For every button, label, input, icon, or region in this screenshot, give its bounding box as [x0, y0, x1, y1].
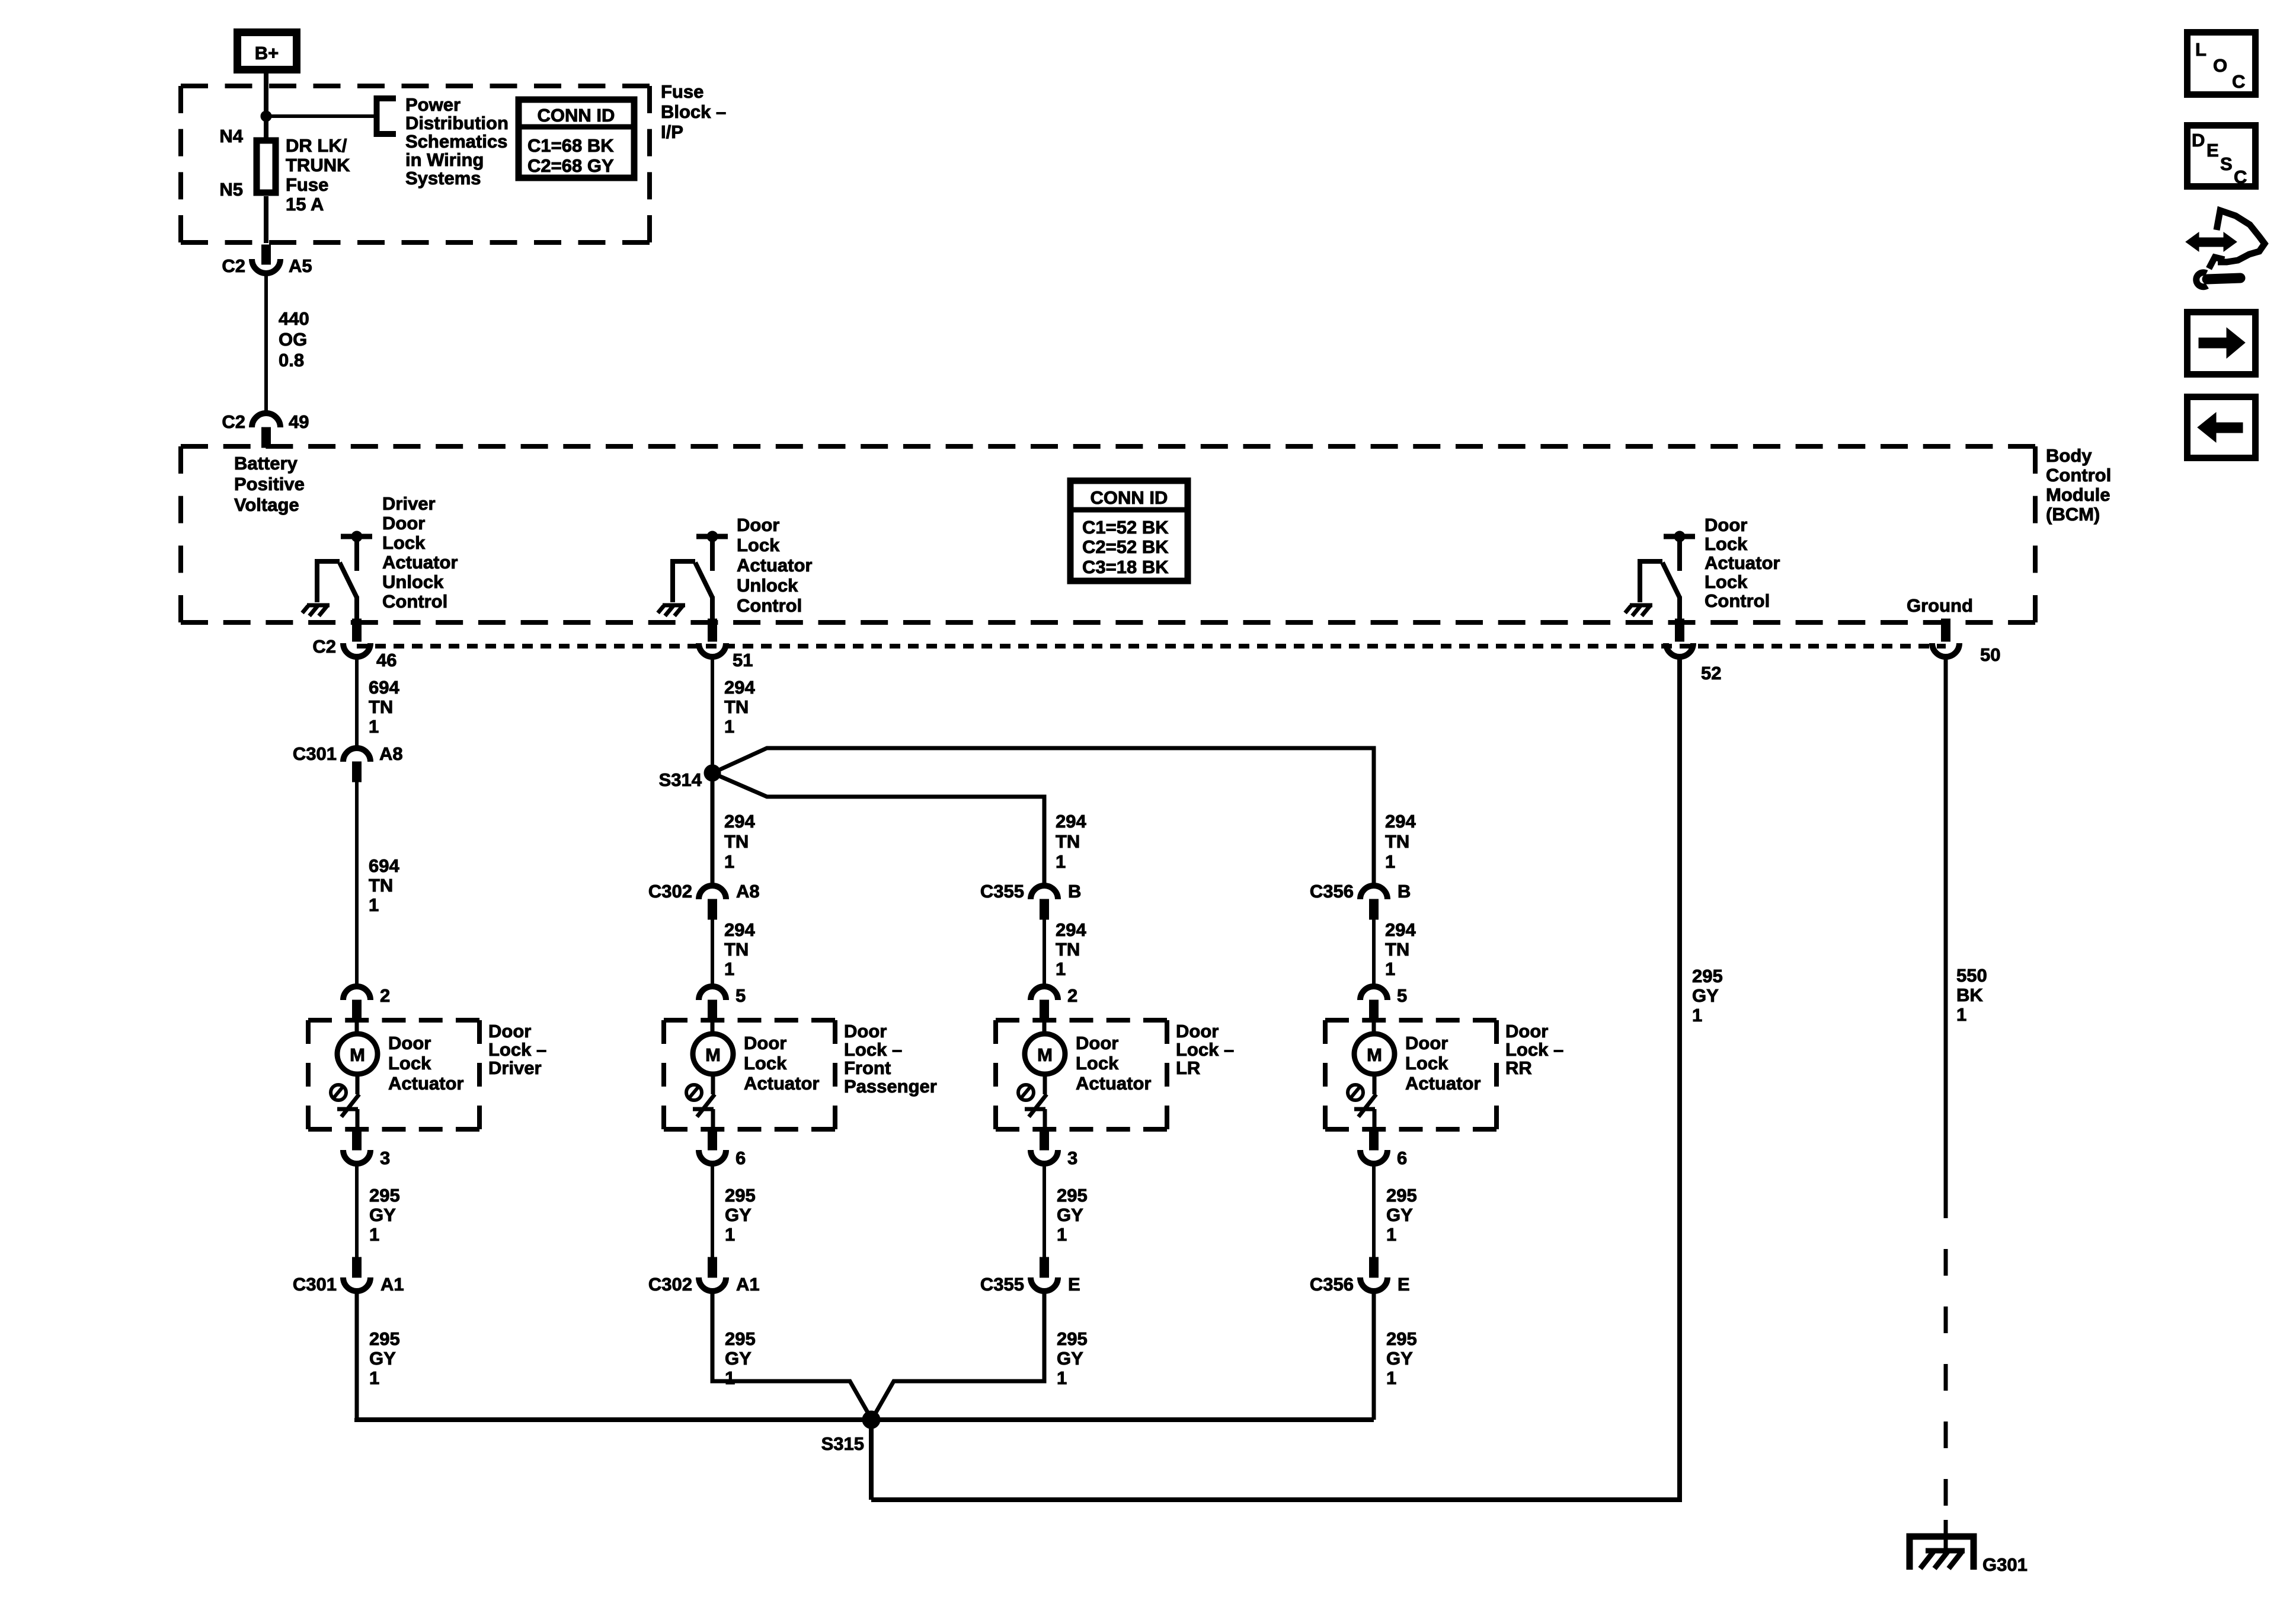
BCM pin 51 stub	[708, 619, 717, 641]
svg-text:295: 295	[725, 1328, 756, 1349]
connector C356 pin B	[1310, 881, 1411, 919]
svg-text:295: 295	[1386, 1328, 1417, 1349]
wire S314 to LR branch (lower)	[712, 773, 1044, 886]
CONN ID table (fuse block)	[519, 100, 634, 178]
svg-text:Actuator: Actuator	[382, 552, 458, 573]
connector C2 pin A5	[222, 245, 312, 276]
BCM unlock driver: wire blade to pin	[710, 596, 715, 621]
svg-text:O: O	[2213, 55, 2227, 76]
svg-text:C356: C356	[1310, 881, 1354, 902]
BCM pin 52 connector arc	[1666, 643, 1693, 657]
svg-text:TN: TN	[724, 697, 749, 717]
svg-text:Control: Control	[1705, 590, 1770, 611]
label: Door Lock - Front Passenger	[844, 1021, 937, 1097]
wire C355-E funnel to S315	[872, 1291, 1044, 1419]
connector C355 pin E	[980, 1257, 1080, 1295]
svg-text:B: B	[1068, 881, 1081, 902]
svg-text:3: 3	[1067, 1148, 1077, 1168]
svg-text:DR LK/: DR LK/	[286, 135, 347, 156]
label: Fuse Block - I/P	[661, 81, 726, 142]
svg-text:S: S	[2220, 154, 2233, 174]
wire 694 TN 1 (C301 to actuator pin 2)	[357, 782, 399, 986]
svg-text:1: 1	[724, 851, 734, 872]
svg-text:TN: TN	[724, 831, 749, 852]
actuator driver pin 2 connector	[343, 985, 390, 1020]
svg-text:Door: Door	[1176, 1021, 1219, 1042]
wire junction to power-distribution tap	[266, 114, 376, 118]
svg-text:Ground: Ground	[1907, 595, 1973, 616]
actuator front passenger pin 6 connector	[699, 1129, 746, 1168]
BCM pin 46 stub	[353, 619, 362, 641]
svg-text:440: 440	[279, 308, 309, 329]
svg-text:Actuator: Actuator	[1705, 552, 1780, 573]
svg-text:294: 294	[724, 677, 755, 698]
svg-text:C3=18 BK: C3=18 BK	[1082, 557, 1169, 577]
CONN ID table (BCM)	[1070, 481, 1188, 581]
svg-text:TN: TN	[1385, 831, 1409, 852]
svg-text:1: 1	[1956, 1004, 1966, 1025]
svg-text:Door: Door	[1076, 1033, 1118, 1053]
svg-text:Door: Door	[488, 1021, 531, 1042]
label: Driver Door Lock Actuator Unlock Control	[382, 493, 458, 612]
svg-text:294: 294	[724, 811, 755, 832]
svg-text:Door: Door	[1705, 515, 1747, 535]
one-way symbol (front passenger)	[686, 1085, 702, 1100]
connector C2 pin 49	[222, 411, 309, 448]
svg-text:B+: B+	[255, 43, 279, 63]
BCM lock driver: switch blade	[1662, 563, 1680, 598]
BCM pin 52 stub	[1675, 619, 1684, 641]
wire 294 TN 1 (C302 to FP actuator pin 5)	[712, 919, 755, 986]
wire 294 TN 1 (pin 51 to S314)	[712, 657, 755, 773]
svg-text:1: 1	[725, 1224, 735, 1245]
svg-text:52: 52	[1701, 663, 1721, 683]
svg-text:Fuse: Fuse	[661, 81, 703, 102]
svg-text:Power: Power	[405, 94, 461, 115]
svg-text:Front: Front	[844, 1058, 891, 1078]
actuator switch blade (front passenger)	[697, 1094, 715, 1117]
wire 294 TN 1 (C355 to LR actuator pin 2)	[1044, 919, 1086, 986]
svg-text:295: 295	[369, 1328, 400, 1349]
Body Control Module (BCM) dashed box	[181, 444, 2035, 449]
one-way symbol (driver)	[331, 1085, 346, 1100]
svg-text:15 A: 15 A	[286, 194, 324, 215]
connector C301 pin A8	[293, 743, 403, 782]
svg-text:LR: LR	[1176, 1058, 1200, 1078]
svg-text:D: D	[2192, 130, 2205, 151]
svg-text:Door: Door	[388, 1033, 431, 1053]
wire 295 GY 1 (below C302)	[725, 1328, 756, 1388]
fuse block dashed box	[181, 84, 650, 88]
svg-text:GY: GY	[1386, 1205, 1413, 1225]
svg-text:GY: GY	[725, 1205, 752, 1225]
svg-text:1: 1	[724, 959, 734, 979]
svg-text:Body: Body	[2046, 445, 2092, 466]
BCM unlock driver: wire to internal ground	[673, 561, 695, 602]
wire 294 TN 1 (C356 to RR actuator pin 5)	[1374, 919, 1416, 986]
label: Door Lock Actuator Unlock Control	[737, 515, 812, 616]
icon: DESC button	[2188, 126, 2256, 188]
BCM driver unlock driver: wire to internal ground	[317, 561, 340, 602]
svg-text:C1=68 BK: C1=68 BK	[527, 135, 614, 156]
svg-text:C301: C301	[293, 1274, 337, 1295]
svg-text:Lock: Lock	[1405, 1053, 1448, 1074]
svg-text:N5: N5	[219, 179, 243, 200]
BCM lock driver: wire blade to pin	[1677, 596, 1682, 621]
svg-text:295: 295	[1692, 966, 1723, 986]
svg-text:1: 1	[1056, 959, 1066, 979]
svg-text:in Wiring: in Wiring	[405, 149, 484, 170]
label 294 TN 1 (LR branch)	[1056, 811, 1086, 872]
svg-text:C2=52 BK: C2=52 BK	[1082, 536, 1169, 557]
svg-text:C: C	[2234, 167, 2247, 187]
BCM lock driver: wire to internal ground	[1640, 561, 1662, 602]
svg-text:Actuator: Actuator	[737, 555, 812, 576]
svg-text:M: M	[1037, 1044, 1053, 1065]
BCM driver unlock driver: internal contact bar	[341, 531, 372, 571]
svg-text:GY: GY	[1692, 985, 1719, 1006]
svg-text:1: 1	[1386, 1224, 1396, 1245]
connector C356 pin E	[1310, 1257, 1410, 1295]
svg-text:Door: Door	[737, 515, 779, 535]
svg-text:Fuse: Fuse	[286, 174, 328, 195]
svg-text:A1: A1	[380, 1274, 404, 1295]
svg-text:Door: Door	[1405, 1033, 1448, 1053]
motor M (front passenger)	[693, 1020, 733, 1094]
actuator contact bar (front passenger)	[693, 1109, 714, 1129]
svg-text:C: C	[2232, 71, 2245, 92]
wire 295 GY 1 (below C301)	[369, 1328, 400, 1388]
BCM pin 51 connector arc	[699, 643, 726, 657]
svg-text:6: 6	[736, 1148, 746, 1168]
wire 295 GY 1 (BCM pin 52 lock control)	[1680, 657, 1723, 1502]
svg-text:M: M	[350, 1044, 365, 1065]
actuator left rear pin 3 connector	[1031, 1129, 1077, 1168]
wire S315 down	[869, 1420, 874, 1500]
BCM pin 50 connector arc	[1932, 643, 1959, 657]
svg-text:C355: C355	[980, 1274, 1024, 1295]
svg-text:A8: A8	[379, 743, 403, 764]
node: Battery Positive Voltage input	[234, 453, 305, 515]
icon: back arrow button	[2188, 397, 2256, 458]
svg-text:Door: Door	[1505, 1021, 1548, 1042]
svg-text:1: 1	[1692, 1005, 1702, 1026]
BCM driver unlock driver: switch blade	[340, 563, 357, 598]
svg-text:2: 2	[1067, 985, 1077, 1006]
svg-text:1: 1	[369, 895, 379, 915]
svg-text:1: 1	[724, 716, 734, 737]
svg-text:550: 550	[1956, 965, 1987, 986]
actuator contact bar (driver)	[337, 1109, 358, 1129]
splice S315	[862, 1411, 880, 1429]
svg-text:Lock –: Lock –	[1505, 1039, 1563, 1060]
splice S314	[704, 765, 721, 781]
connector C302 pin A8	[648, 881, 760, 919]
svg-text:294: 294	[1385, 919, 1416, 940]
wire 295 GY 1 (below C355)	[1057, 1328, 1088, 1388]
svg-text:C302: C302	[648, 1274, 692, 1295]
svg-text:Lock: Lock	[1705, 571, 1748, 592]
motor M (right rear)	[1354, 1020, 1395, 1094]
actuator contact bar (right rear)	[1354, 1109, 1375, 1129]
svg-text:Control: Control	[382, 591, 447, 612]
label: Door Lock Actuator Lock Control	[1705, 515, 1780, 611]
svg-text:C356: C356	[1310, 1274, 1354, 1295]
wire 295 GY 1 (below C356)	[1386, 1328, 1417, 1388]
svg-text:294: 294	[1385, 811, 1416, 832]
label: Door Lock - LR	[1176, 1021, 1234, 1078]
svg-text:Door: Door	[844, 1021, 887, 1042]
svg-text:1: 1	[1056, 851, 1066, 872]
svg-text:C355: C355	[980, 881, 1024, 902]
svg-text:M: M	[1367, 1044, 1382, 1065]
svg-text:C2=68 GY: C2=68 GY	[527, 155, 614, 176]
note: Power Distribution Schematics in Wiring Systems	[405, 94, 509, 189]
door lock actuator front passenger dashed box	[664, 1018, 835, 1023]
wire 694 TN 1 (pin 46 to C301)	[357, 657, 399, 748]
svg-text:A5: A5	[289, 255, 312, 276]
motor M (driver)	[337, 1020, 378, 1094]
svg-text:E: E	[1398, 1274, 1410, 1295]
svg-text:N4: N4	[219, 126, 243, 146]
actuator left rear pin 2 connector	[1031, 985, 1077, 1020]
label 294 TN 1 (RR branch)	[1385, 811, 1416, 872]
wire RR C356-E down to bus	[1372, 1291, 1376, 1420]
label: Door Lock Actuator (right rear)	[1405, 1033, 1480, 1094]
wire 295 GY 1 (left rear lower)	[1044, 1164, 1088, 1257]
svg-text:TN: TN	[1385, 939, 1409, 960]
wire 295 GY 1 (right rear lower)	[1374, 1164, 1417, 1257]
power feed B+	[238, 33, 297, 70]
svg-text:M: M	[705, 1044, 721, 1065]
svg-text:GY: GY	[369, 1348, 396, 1369]
svg-text:S315: S315	[821, 1433, 864, 1454]
actuator front passenger pin 5 connector	[699, 985, 746, 1020]
svg-text:0.8: 0.8	[279, 350, 304, 370]
door lock actuator left rear dashed box	[996, 1018, 1167, 1023]
svg-text:GY: GY	[1057, 1205, 1083, 1225]
svg-text:Lock –: Lock –	[844, 1039, 902, 1060]
svg-text:I/P: I/P	[661, 122, 683, 142]
svg-text:49: 49	[289, 411, 309, 432]
svg-text:Lock: Lock	[382, 532, 426, 553]
label 294 TN 1 (FP, below S314)	[724, 811, 755, 872]
door lock actuator driver dashed box	[308, 1018, 479, 1023]
BCM unlock driver: internal contact bar	[696, 531, 728, 571]
one-way symbol (right rear)	[1348, 1085, 1363, 1100]
icon: LOC button	[2188, 33, 2256, 95]
svg-text:TN: TN	[369, 697, 393, 717]
svg-text:1: 1	[369, 1224, 379, 1245]
svg-text:TN: TN	[1056, 831, 1080, 852]
svg-text:E: E	[2207, 140, 2219, 161]
svg-text:Distribution: Distribution	[405, 113, 509, 133]
svg-text:C2: C2	[312, 636, 336, 657]
svg-text:1: 1	[1057, 1224, 1067, 1245]
svg-text:1: 1	[1386, 1368, 1396, 1388]
svg-text:Lock: Lock	[1705, 534, 1748, 554]
icon: schematic navigation (arrows + wrench)	[2186, 210, 2265, 287]
svg-text:1: 1	[1057, 1368, 1067, 1388]
BCM lock driver: internal ground symbol	[1625, 605, 1652, 616]
svg-text:B: B	[1398, 881, 1411, 902]
BCM pin 46 connector arc	[343, 643, 370, 657]
door lock actuator right rear dashed box	[1325, 1018, 1496, 1023]
svg-text:C2: C2	[222, 411, 245, 432]
svg-text:Lock: Lock	[737, 535, 780, 555]
actuator right rear pin 6 connector	[1360, 1129, 1407, 1168]
actuator right rear pin 5 connector	[1360, 985, 1407, 1020]
actuator driver pin 3 connector	[343, 1129, 390, 1168]
svg-text:1: 1	[369, 716, 379, 737]
svg-text:Actuator: Actuator	[388, 1073, 463, 1094]
svg-text:A1: A1	[736, 1274, 760, 1295]
svg-text:Lock –: Lock –	[488, 1039, 546, 1060]
svg-text:3: 3	[380, 1148, 390, 1168]
svg-text:Block –: Block –	[661, 101, 726, 122]
svg-text:BK: BK	[1956, 985, 1983, 1005]
svg-text:OG: OG	[279, 329, 307, 350]
svg-text:S314: S314	[659, 769, 702, 790]
svg-text:L: L	[2195, 39, 2207, 60]
BCM driver unlock driver: wire blade to pin	[354, 596, 359, 621]
svg-text:295: 295	[369, 1185, 400, 1206]
svg-text:694: 694	[369, 677, 399, 698]
svg-text:TRUNK: TRUNK	[286, 155, 350, 175]
actuator switch blade (left rear)	[1029, 1094, 1047, 1117]
wire 440 OG 0.8	[266, 273, 309, 414]
svg-text:Lock –: Lock –	[1176, 1039, 1234, 1060]
svg-text:Control: Control	[2046, 465, 2111, 485]
label: Door Lock Actuator (driver)	[388, 1033, 463, 1094]
svg-text:Actuator: Actuator	[1076, 1073, 1151, 1094]
wire B+ to fuse N4	[264, 74, 268, 140]
svg-text:51: 51	[733, 650, 753, 670]
svg-text:295: 295	[1386, 1185, 1417, 1206]
svg-text:GY: GY	[725, 1348, 752, 1369]
svg-text:Lock: Lock	[744, 1053, 787, 1074]
label: Door Lock Actuator (left rear)	[1076, 1033, 1151, 1094]
svg-text:Lock: Lock	[1076, 1053, 1119, 1074]
one-way symbol (left rear)	[1018, 1085, 1034, 1100]
svg-text:1: 1	[725, 1368, 735, 1388]
svg-text:694: 694	[369, 855, 399, 876]
label: Door Lock - RR	[1505, 1021, 1563, 1078]
wire S315 to lock feed (pin 52)	[871, 1497, 1680, 1502]
actuator contact bar (left rear)	[1025, 1109, 1045, 1129]
BCM unlock driver: switch blade	[695, 563, 712, 598]
svg-text:2: 2	[380, 985, 390, 1006]
off-page bracket (power distribution)	[377, 98, 396, 134]
label: Door Lock Actuator (front passenger)	[744, 1033, 819, 1094]
svg-text:6: 6	[1397, 1148, 1407, 1168]
svg-text:294: 294	[724, 919, 755, 940]
svg-text:C1=52 BK: C1=52 BK	[1082, 517, 1169, 538]
svg-text:RR: RR	[1505, 1058, 1532, 1078]
motor M (left rear)	[1025, 1020, 1065, 1094]
actuator switch blade (right rear)	[1358, 1094, 1376, 1117]
node: B+ distribution junction	[261, 111, 271, 122]
svg-text:C2: C2	[222, 255, 245, 276]
connector C301 pin A1	[293, 1257, 404, 1295]
svg-text:(BCM): (BCM)	[2046, 504, 2100, 525]
wire S314 to C302	[711, 773, 715, 886]
svg-text:GY: GY	[1057, 1348, 1083, 1369]
BCM lock driver: internal contact bar	[1664, 531, 1695, 571]
svg-text:295: 295	[725, 1185, 756, 1206]
svg-text:1: 1	[1385, 851, 1395, 872]
svg-text:CONN ID: CONN ID	[538, 105, 615, 126]
svg-text:TN: TN	[1056, 939, 1080, 960]
label: Body Control Module (BCM)	[2046, 445, 2111, 525]
wire driver C301-A1 down to bus	[355, 1291, 359, 1420]
svg-text:C302: C302	[648, 881, 692, 902]
svg-text:Actuator: Actuator	[744, 1073, 819, 1094]
svg-text:294: 294	[1056, 811, 1086, 832]
svg-text:GY: GY	[1386, 1348, 1413, 1369]
svg-text:Driver: Driver	[488, 1058, 542, 1078]
svg-text:5: 5	[736, 985, 746, 1006]
svg-text:TN: TN	[369, 875, 393, 896]
svg-text:295: 295	[1057, 1185, 1088, 1206]
wire C302-A1 funnel to S315	[712, 1291, 871, 1419]
svg-text:GY: GY	[369, 1205, 396, 1225]
wire 550 BK 1 (BCM pin 50 to G301)	[1946, 657, 1987, 1552]
BCM driver unlock driver: internal ground symbol	[302, 605, 330, 616]
svg-text:Driver: Driver	[382, 493, 436, 514]
svg-text:294: 294	[1056, 919, 1086, 940]
BCM pin 50 stub	[1942, 619, 1950, 641]
svg-text:1: 1	[1385, 959, 1395, 979]
BCM unlock driver: internal ground symbol	[658, 605, 685, 616]
svg-text:E: E	[1068, 1274, 1080, 1295]
svg-text:Unlock: Unlock	[382, 571, 444, 592]
ground G301	[1910, 1536, 2028, 1575]
svg-text:1: 1	[369, 1368, 379, 1388]
svg-text:Voltage: Voltage	[234, 494, 299, 515]
svg-text:Door: Door	[744, 1033, 786, 1053]
svg-text:Systems: Systems	[405, 168, 481, 189]
svg-text:5: 5	[1397, 985, 1407, 1006]
svg-text:G301: G301	[1982, 1554, 2028, 1575]
svg-text:CONN ID: CONN ID	[1091, 487, 1168, 508]
svg-text:C301: C301	[293, 743, 337, 764]
svg-text:Door: Door	[382, 513, 425, 534]
svg-text:TN: TN	[724, 939, 749, 960]
svg-text:Schematics: Schematics	[405, 131, 507, 152]
wire bus driver to RR (through S315)	[357, 1418, 1374, 1420]
svg-text:Lock: Lock	[388, 1053, 431, 1074]
svg-text:46: 46	[376, 650, 396, 670]
svg-text:Control: Control	[737, 595, 802, 616]
BCM connector C2 dotted gang line	[357, 644, 1946, 649]
fuse N4/N5 DR LK/TRUNK Fuse 15 A	[219, 126, 350, 243]
svg-text:Passenger: Passenger	[844, 1076, 937, 1097]
svg-text:Unlock: Unlock	[737, 575, 798, 596]
wire 295 GY 1 (front passenger lower)	[712, 1164, 756, 1257]
svg-text:Positive: Positive	[234, 474, 305, 494]
label: Door Lock - Driver	[488, 1021, 546, 1078]
wire 295 GY 1 (driver lower)	[357, 1164, 400, 1257]
svg-text:295: 295	[1057, 1328, 1088, 1349]
svg-text:A8: A8	[736, 881, 760, 902]
icon: forward arrow button	[2188, 312, 2256, 375]
svg-text:Battery: Battery	[234, 453, 298, 474]
svg-text:Module: Module	[2046, 484, 2110, 505]
connector C355 pin B	[980, 881, 1082, 919]
actuator switch blade (driver)	[341, 1094, 359, 1117]
svg-text:50: 50	[1980, 644, 2000, 665]
